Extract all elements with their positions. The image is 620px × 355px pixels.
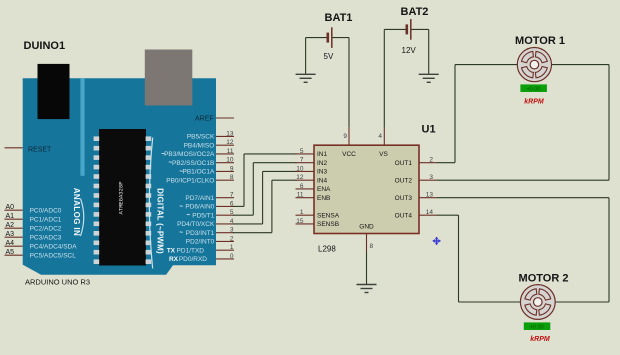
pin A5 bbox=[5, 254, 23, 256]
pin D2 bbox=[216, 240, 234, 242]
wire D6 to IN1 bbox=[233, 205, 244, 207]
ground (BAT2) bbox=[419, 73, 439, 75]
svg-text:+0.00: +0.00 bbox=[530, 324, 544, 330]
wire OUT1 to motor1 left bbox=[437, 162, 455, 164]
svg-text:ARDUINO UNO R3: ARDUINO UNO R3 bbox=[25, 277, 90, 286]
svg-text:BAT1: BAT1 bbox=[325, 12, 353, 24]
wire OUT3 to motor2 right bbox=[437, 197, 609, 199]
svg-text:OUT4: OUT4 bbox=[395, 212, 413, 219]
svg-text:RX: RX bbox=[169, 256, 179, 263]
pin ENB (11) bbox=[296, 197, 315, 199]
svg-text:OUT3: OUT3 bbox=[395, 195, 413, 202]
svg-text:~: ~ bbox=[168, 160, 172, 167]
wire D5 to IN2 bbox=[233, 214, 253, 216]
svg-text:7: 7 bbox=[300, 157, 304, 164]
svg-text:L298: L298 bbox=[318, 245, 336, 254]
pin AREF bbox=[216, 117, 234, 119]
pin GND (8) bbox=[366, 234, 368, 252]
svg-text:DUINO1: DUINO1 bbox=[24, 40, 66, 52]
svg-text:PD4/T0/XCK: PD4/T0/XCK bbox=[177, 221, 215, 228]
svg-text:IN3: IN3 bbox=[317, 169, 328, 176]
svg-text:IN1: IN1 bbox=[317, 151, 328, 158]
svg-text:15: 15 bbox=[296, 218, 304, 225]
svg-text:PC3/ADC3: PC3/ADC3 bbox=[30, 235, 62, 242]
wire D4 to IN3 bbox=[233, 223, 263, 225]
svg-text:PC1/ADC1: PC1/ADC1 bbox=[30, 217, 62, 224]
svg-text:GND: GND bbox=[359, 224, 374, 231]
wire OUT2 to motor1 right bbox=[437, 179, 609, 181]
svg-text:IN4: IN4 bbox=[317, 177, 328, 184]
svg-text:ENB: ENB bbox=[317, 195, 330, 202]
pin SENSA (1) bbox=[296, 214, 315, 216]
svg-text:MOTOR 1: MOTOR 1 bbox=[515, 35, 565, 47]
svg-text:2: 2 bbox=[230, 235, 234, 242]
IC ATMEGA328P bbox=[99, 129, 146, 266]
svg-text:PD6/AIN0: PD6/AIN0 bbox=[185, 204, 214, 211]
svg-text:6: 6 bbox=[300, 183, 304, 190]
svg-text:VCC: VCC bbox=[342, 151, 356, 158]
svg-text:0: 0 bbox=[230, 253, 234, 260]
svg-text:10: 10 bbox=[226, 157, 234, 164]
arduino power jack bbox=[38, 64, 70, 119]
motor 1 rpm display bbox=[520, 84, 547, 92]
svg-text:10: 10 bbox=[296, 165, 304, 172]
svg-text:PC4/ADC4/SDA: PC4/ADC4/SDA bbox=[30, 244, 78, 251]
svg-text:11: 11 bbox=[227, 148, 234, 155]
pin IN2 (7) bbox=[296, 162, 315, 164]
svg-text:DIGITAL (~PWM): DIGITAL (~PWM) bbox=[156, 188, 165, 254]
svg-text:BAT2: BAT2 bbox=[401, 6, 429, 18]
svg-text:PB4/MISO: PB4/MISO bbox=[184, 142, 215, 149]
pin D10 bbox=[216, 162, 234, 164]
pin IN4 (12) bbox=[296, 179, 315, 181]
svg-text:ATMEGA328P: ATMEGA328P bbox=[118, 181, 125, 214]
wire BAT2 to VS bbox=[383, 29, 385, 127]
wire D3 to IN4 bbox=[233, 232, 272, 234]
svg-text:A4: A4 bbox=[6, 240, 15, 247]
svg-text:U1: U1 bbox=[422, 124, 436, 136]
wire BAT2 to ground bbox=[428, 29, 430, 73]
svg-text:1: 1 bbox=[300, 209, 304, 216]
pin D0 bbox=[216, 258, 234, 260]
pin VCC (9) bbox=[348, 128, 350, 146]
svg-text:OUT1: OUT1 bbox=[395, 160, 413, 167]
pin D7 bbox=[216, 197, 234, 199]
svg-text:VS: VS bbox=[379, 151, 388, 158]
svg-text:MOTOR 2: MOTOR 2 bbox=[519, 272, 569, 284]
svg-text:kRPM: kRPM bbox=[524, 98, 544, 105]
svg-text:ANALOG IN: ANALOG IN bbox=[72, 188, 81, 237]
svg-text:9: 9 bbox=[230, 165, 234, 172]
pin D1 bbox=[216, 249, 234, 251]
svg-text:+0.00: +0.00 bbox=[526, 86, 540, 92]
svg-text:PD1/TXD: PD1/TXD bbox=[177, 247, 205, 254]
svg-text:8: 8 bbox=[230, 174, 234, 181]
arduino board DUINO1 bbox=[23, 78, 216, 274]
wire OUT4 to motor2 left bbox=[437, 214, 459, 216]
svg-text:SENSA: SENSA bbox=[317, 212, 340, 219]
pin IN3 (10) bbox=[296, 170, 315, 172]
svg-text:PD2/INT0: PD2/INT0 bbox=[186, 239, 215, 246]
wire GND pin to ground bbox=[366, 252, 368, 285]
motor 2 rpm display bbox=[524, 322, 551, 330]
pin OUT1 (2) bbox=[419, 162, 437, 164]
pin A1 bbox=[5, 218, 23, 220]
svg-text:~: ~ bbox=[179, 203, 183, 210]
pin OUT2 (3) bbox=[419, 179, 437, 181]
svg-text:12V: 12V bbox=[402, 46, 417, 55]
svg-text:12: 12 bbox=[296, 174, 304, 181]
svg-text:PD0/RXD: PD0/RXD bbox=[179, 256, 207, 263]
pin D11 bbox=[216, 153, 234, 155]
pin A0 bbox=[5, 209, 23, 211]
pin IN1 (5) bbox=[296, 153, 315, 155]
pin D9 bbox=[216, 170, 234, 172]
pin SENSB (15) bbox=[296, 223, 315, 225]
svg-text:PD7/AIN1: PD7/AIN1 bbox=[185, 195, 214, 202]
silk arc digital bbox=[149, 138, 152, 269]
svg-text:1: 1 bbox=[230, 244, 234, 251]
pin ENA (6) bbox=[296, 188, 315, 190]
pin A2 bbox=[5, 227, 23, 229]
svg-text:RESET: RESET bbox=[28, 146, 52, 153]
pin A4 bbox=[5, 245, 23, 247]
svg-text:A0: A0 bbox=[6, 204, 15, 211]
svg-text:PD5/T1: PD5/T1 bbox=[192, 212, 214, 219]
svg-text:IN2: IN2 bbox=[317, 160, 328, 167]
wire BAT1+ to VCC bbox=[348, 38, 350, 128]
pin D6 bbox=[216, 205, 234, 207]
svg-text:PB3/MOSI/OC2A: PB3/MOSI/OC2A bbox=[164, 151, 215, 158]
pin OUT4 (14) bbox=[419, 214, 437, 216]
svg-text:4: 4 bbox=[378, 133, 382, 140]
arduino usb connector bbox=[145, 50, 193, 106]
svg-text:~: ~ bbox=[179, 168, 183, 175]
node + marker bbox=[433, 237, 440, 244]
svg-text:8: 8 bbox=[370, 243, 374, 250]
svg-text:PC5/ADC5/SCL: PC5/ADC5/SCL bbox=[30, 253, 77, 260]
svg-text:2: 2 bbox=[429, 157, 433, 164]
svg-text:9: 9 bbox=[343, 133, 347, 140]
op-chip U1 L298 body bbox=[314, 145, 419, 233]
pin OUT3 (13) bbox=[419, 197, 437, 199]
svg-text:PC0/ADC0: PC0/ADC0 bbox=[30, 208, 62, 215]
arduino blue stripe art bbox=[80, 78, 84, 176]
ground (L298) bbox=[357, 284, 377, 286]
svg-text:TX: TX bbox=[167, 247, 176, 254]
svg-text:13: 13 bbox=[426, 192, 434, 199]
svg-text:A3: A3 bbox=[6, 231, 15, 238]
svg-text:ENA: ENA bbox=[317, 186, 331, 193]
svg-text:SENSB: SENSB bbox=[317, 221, 339, 228]
svg-text:3: 3 bbox=[429, 174, 433, 181]
svg-text:A1: A1 bbox=[6, 213, 15, 220]
svg-text:11: 11 bbox=[297, 192, 304, 199]
silk arc analog bbox=[81, 199, 84, 237]
svg-text:PB1/OC1A: PB1/OC1A bbox=[183, 169, 215, 176]
svg-text:kRPM: kRPM bbox=[530, 336, 550, 343]
pin RESET bbox=[5, 147, 23, 149]
svg-text:5V: 5V bbox=[324, 52, 334, 61]
svg-text:PB0/ICP1/CLKO: PB0/ICP1/CLKO bbox=[166, 177, 214, 184]
svg-text:~: ~ bbox=[186, 212, 190, 219]
pin A3 bbox=[5, 236, 23, 238]
pin D4 bbox=[216, 223, 234, 225]
svg-text:PD3/INT1: PD3/INT1 bbox=[186, 230, 215, 237]
svg-text:12: 12 bbox=[226, 139, 234, 146]
pin D5 bbox=[216, 214, 234, 216]
pin D13 bbox=[216, 135, 234, 137]
svg-text:13: 13 bbox=[226, 130, 234, 137]
wire BAT1- to ground bbox=[305, 38, 307, 74]
svg-text:OUT2: OUT2 bbox=[395, 177, 413, 184]
svg-text:AREF: AREF bbox=[195, 115, 214, 122]
svg-text:7: 7 bbox=[230, 192, 234, 199]
svg-text:14: 14 bbox=[426, 209, 434, 216]
svg-text:~: ~ bbox=[161, 151, 165, 158]
pin D12 bbox=[216, 144, 234, 146]
pin D3 bbox=[216, 232, 234, 234]
pin D8 bbox=[216, 179, 234, 181]
ground (BAT1) bbox=[296, 73, 316, 75]
pin VS (4) bbox=[383, 128, 385, 146]
svg-text:PB5/SCK: PB5/SCK bbox=[187, 134, 215, 141]
svg-text:~: ~ bbox=[179, 230, 183, 237]
svg-text:PB2/SS/OC1B: PB2/SS/OC1B bbox=[172, 160, 214, 167]
svg-text:A5: A5 bbox=[6, 249, 15, 256]
svg-text:5: 5 bbox=[300, 148, 304, 155]
svg-text:A2: A2 bbox=[6, 222, 15, 229]
svg-text:PC2/ADC2: PC2/ADC2 bbox=[30, 226, 62, 233]
